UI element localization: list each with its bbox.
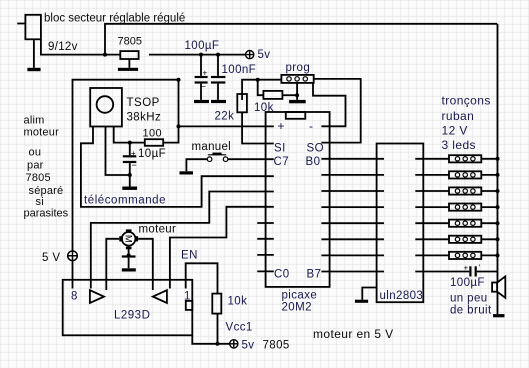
svg-text:−: − xyxy=(132,160,137,170)
svg-text:1: 1 xyxy=(184,291,190,303)
svg-text:SI: SI xyxy=(274,143,286,155)
svg-text:alim: alim xyxy=(24,115,45,127)
svg-text:100: 100 xyxy=(143,128,163,140)
svg-text:8: 8 xyxy=(71,291,77,303)
svg-text:EN: EN xyxy=(181,250,198,262)
svg-text:M: M xyxy=(122,235,133,243)
svg-text:picaxe: picaxe xyxy=(282,290,318,302)
svg-text:+: + xyxy=(278,119,285,133)
svg-text:100µF: 100µF xyxy=(450,277,485,289)
svg-text:bloc secteur réglable régulé: bloc secteur réglable régulé xyxy=(44,13,185,25)
svg-text:ruban: ruban xyxy=(442,109,475,123)
svg-text:L293D: L293D xyxy=(114,310,150,322)
svg-text:+: + xyxy=(131,149,136,158)
svg-text:3 leds: 3 leds xyxy=(442,138,476,152)
svg-text:Vcc1: Vcc1 xyxy=(226,322,253,334)
svg-text:de bruit: de bruit xyxy=(450,305,492,317)
svg-text:manuel: manuel xyxy=(192,141,232,153)
svg-text:5v: 5v xyxy=(242,340,255,352)
svg-text:12 V: 12 V xyxy=(442,124,468,138)
svg-text:prog: prog xyxy=(286,62,311,74)
svg-text:7805: 7805 xyxy=(26,172,51,184)
svg-text:uln2803: uln2803 xyxy=(380,290,424,302)
svg-text:par: par xyxy=(27,160,44,172)
svg-text:TSOP: TSOP xyxy=(127,97,160,109)
svg-text:parasites: parasites xyxy=(24,208,69,220)
svg-text:100µF: 100µF xyxy=(185,40,220,52)
svg-text:un peu: un peu xyxy=(450,293,488,305)
svg-text:SO: SO xyxy=(307,143,324,155)
svg-text:7805: 7805 xyxy=(118,36,142,48)
svg-text:9/12v: 9/12v xyxy=(48,41,78,53)
svg-text:+: + xyxy=(464,264,469,273)
svg-text:si: si xyxy=(36,196,44,208)
svg-text:moteur: moteur xyxy=(24,127,60,139)
svg-text:C7: C7 xyxy=(274,156,290,168)
svg-text:22k: 22k xyxy=(215,111,235,123)
svg-text:5 V: 5 V xyxy=(42,252,60,264)
svg-text:20M2: 20M2 xyxy=(282,302,312,314)
svg-text:moteur en 5 V: moteur en 5 V xyxy=(313,327,394,341)
svg-text:B7: B7 xyxy=(307,269,322,281)
svg-text:100nF: 100nF xyxy=(222,64,257,76)
svg-text:tronçons: tronçons xyxy=(442,94,491,108)
svg-text:5v: 5v xyxy=(258,49,271,61)
svg-text:B0: B0 xyxy=(306,156,321,168)
svg-text:38kHz: 38kHz xyxy=(127,112,162,124)
svg-text:C0: C0 xyxy=(274,269,290,281)
svg-text:−: − xyxy=(201,82,206,92)
svg-text:ou: ou xyxy=(29,147,42,159)
svg-text:séparé: séparé xyxy=(29,185,64,197)
svg-text:10k: 10k xyxy=(228,296,248,308)
svg-text:+: + xyxy=(203,69,208,78)
svg-text:-: - xyxy=(309,119,313,133)
svg-text:10k: 10k xyxy=(254,102,274,114)
svg-text:télécommande: télécommande xyxy=(84,195,166,207)
svg-text:10µF: 10µF xyxy=(138,148,166,160)
svg-text:7805: 7805 xyxy=(263,340,290,352)
svg-text:moteur: moteur xyxy=(139,224,177,236)
